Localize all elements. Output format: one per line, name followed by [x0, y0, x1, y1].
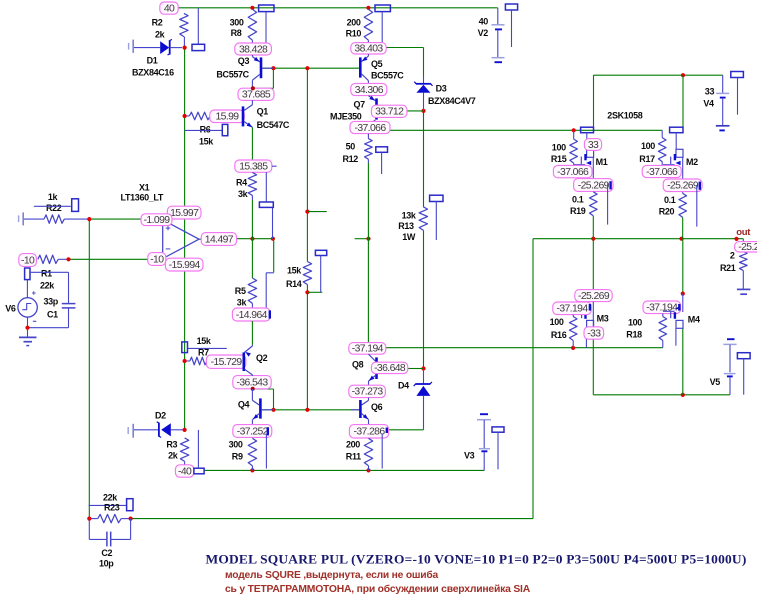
- svg-text:33.712: 33.712: [375, 107, 404, 118]
- svg-text:40: 40: [479, 17, 489, 27]
- bubble 33.712: [371, 105, 407, 117]
- tie jumper near V2: [505, 4, 517, 10]
- wire R4 to output node: [251, 200, 253, 239]
- tie jumper at M1: [581, 127, 594, 133]
- source V6: [18, 298, 37, 317]
- svg-text:C2: C2: [101, 548, 112, 558]
- tie jumper at R13: [430, 195, 443, 201]
- node dot base rail B: [305, 408, 309, 412]
- resistor R12: [365, 139, 373, 160]
- bubble 37.685: [238, 88, 274, 100]
- svg-text:22k: 22k: [103, 493, 118, 503]
- svg-text:-37.194: -37.194: [556, 304, 588, 315]
- diode D3 BZX84C4V7: [423, 76, 425, 84]
- tie jumper at V5: [737, 353, 750, 359]
- wire +33 drop to M2 tie: [682, 75, 684, 127]
- wire R22 to op-amp: [64, 218, 89, 220]
- wire feedback column x=89: [88, 219, 90, 518]
- svg-text:100: 100: [628, 318, 642, 328]
- node dot R23 right: [129, 517, 133, 521]
- svg-text:-25.269: -25.269: [667, 181, 699, 192]
- terminal at D2: [127, 427, 129, 434]
- svg-text:37.685: 37.685: [242, 90, 271, 101]
- tie jumper under R4: [265, 172, 267, 202]
- node dot bottom rail R9: [250, 468, 254, 472]
- svg-text:R6: R6: [200, 125, 211, 135]
- bubble -37.194 M3: [553, 302, 591, 315]
- svg-text:M3: M3: [597, 314, 609, 324]
- svg-text:Q6: Q6: [371, 402, 383, 412]
- node dot output rail R19: [591, 237, 595, 241]
- node dot +33 rail M2: [681, 73, 685, 77]
- svg-text:BC557C: BC557C: [371, 71, 404, 81]
- wire op-amp output segment: [237, 238, 273, 240]
- resistor R7: [185, 360, 190, 362]
- transistor Q8: [369, 354, 376, 361]
- svg-text:MODEL SQUARE PUL (VZERO=-10 VO: MODEL SQUARE PUL (VZERO=-10 VONE=10 P1=0…: [206, 552, 747, 567]
- wire stub right at y=211.6: [307, 211, 326, 213]
- mosfet M2 2SK1058: [675, 133, 677, 150]
- bubble 14.497: [201, 233, 236, 246]
- bubble -10 op-amp: [148, 253, 166, 266]
- battery V2 40V: [492, 24, 505, 26]
- node dot D4 top (-36.648): [421, 366, 425, 370]
- svg-text:1k: 1k: [48, 192, 59, 202]
- svg-text:100: 100: [550, 317, 564, 327]
- node dot bottom rail R11: [366, 468, 370, 472]
- svg-text:V6: V6: [5, 304, 16, 314]
- svg-text:R2: R2: [152, 18, 163, 28]
- svg-text:40: 40: [164, 3, 175, 14]
- bubble -36.648: [371, 362, 407, 373]
- bubble 15.385: [235, 160, 272, 172]
- svg-text:-10: -10: [21, 255, 35, 266]
- bubble -15.994: [165, 258, 203, 271]
- svg-text:10p: 10p: [99, 559, 114, 569]
- tie jumper at V3: [492, 427, 504, 432]
- node dot V5 rail M4: [681, 393, 685, 397]
- tie jumper at R7: [182, 342, 188, 353]
- node dot output rail out: [734, 237, 738, 241]
- svg-text:-40: -40: [178, 466, 192, 477]
- op-amp X1 LT1360_LT: [163, 220, 199, 259]
- svg-text:-25.269: -25.269: [578, 180, 610, 191]
- terminal at D1: [128, 43, 130, 50]
- svg-text:Q4: Q4: [238, 400, 250, 410]
- svg-text:-37.194: -37.194: [646, 303, 678, 314]
- bubble -33: [584, 327, 604, 339]
- wire D3/R13/D4 column: [386, 47, 424, 49]
- svg-text:-36.648: -36.648: [374, 363, 406, 374]
- wire R23 label line: [89, 504, 127, 506]
- battery V5: [727, 338, 735, 340]
- wire +33 drop to M1: [593, 75, 595, 127]
- bubble -37.194 Q8: [349, 343, 386, 355]
- svg-text:out: out: [736, 227, 751, 238]
- wire R12 to -37.194: [367, 163, 369, 343]
- node dot R6: [183, 114, 187, 118]
- svg-text:сь у ТЕТРАГРАММОТОНА, при обс: сь у ТЕТРАГРАММОТОНА, при обсуждении све…: [225, 583, 530, 595]
- svg-text:R16: R16: [551, 330, 567, 340]
- wire Q2 emitter to base rail: [253, 388, 274, 390]
- svg-text:-10: -10: [150, 254, 164, 265]
- bubble 15.997: [167, 206, 201, 219]
- svg-text:D4: D4: [398, 380, 409, 390]
- node dot output rail R20: [679, 237, 683, 241]
- wire tie to V6: [26, 280, 28, 298]
- resistor R20: [679, 193, 687, 217]
- resistor R15: [573, 130, 575, 139]
- wire D4 bottom link: [386, 429, 424, 431]
- bubble -37.066 M2: [642, 165, 681, 177]
- wire 33.712 bubble link: [407, 110, 424, 112]
- node dot M4 drain: [681, 292, 685, 296]
- ground at V6: [27, 328, 29, 337]
- svg-text:R1: R1: [41, 269, 52, 279]
- svg-text:100: 100: [552, 143, 566, 153]
- svg-text:14.497: 14.497: [205, 234, 234, 245]
- resistor R18: [662, 314, 664, 317]
- resistor R19: [590, 192, 598, 216]
- bubble -14.964: [232, 308, 270, 321]
- wire R7 label line: [188, 347, 227, 349]
- svg-text:BC547C: BC547C: [257, 120, 290, 130]
- svg-text:1W: 1W: [402, 232, 416, 242]
- svg-text:R23: R23: [104, 502, 120, 512]
- resistor R5: [251, 239, 253, 278]
- resistor R2: [180, 13, 188, 36]
- svg-text:33: 33: [705, 87, 715, 97]
- svg-text:D1: D1: [147, 56, 158, 66]
- svg-text:Q5: Q5: [371, 59, 383, 69]
- bubble -25.269 M1: [574, 179, 613, 192]
- transistor Q7 MJE350: [369, 96, 376, 101]
- svg-text:100: 100: [641, 141, 655, 151]
- wire feedback riser x=533: [532, 239, 534, 519]
- mosfet M4 2SK1058: [676, 320, 683, 328]
- svg-text:15.997: 15.997: [170, 208, 199, 219]
- svg-text:V2: V2: [478, 28, 489, 38]
- wire M2 source dangle: [696, 185, 698, 227]
- svg-text:V3: V3: [464, 451, 475, 461]
- wire Q3 base-collector loop: [272, 68, 274, 88]
- node dot top rail R10: [366, 6, 370, 10]
- svg-text:R11: R11: [346, 452, 361, 462]
- wire M4 drain/source column: [682, 239, 684, 294]
- bubble -25.269 M2: [663, 179, 702, 192]
- diode D4: [423, 369, 425, 385]
- svg-text:50: 50: [346, 142, 356, 152]
- svg-text:-15.729: -15.729: [211, 357, 243, 368]
- wire V5 rail y=394.8: [593, 394, 730, 396]
- svg-text:-37.066: -37.066: [646, 167, 678, 178]
- bubble 34.306: [351, 83, 387, 95]
- node dot op-amp out A: [250, 237, 254, 241]
- wire V6 bottom: [27, 317, 29, 328]
- tie jumper at R8: [259, 5, 274, 12]
- diode D1 BZX84C16: [134, 47, 160, 49]
- svg-text:-37.252: -37.252: [237, 426, 269, 437]
- svg-text:33p: 33p: [44, 297, 59, 307]
- svg-text:R22: R22: [46, 203, 62, 213]
- svg-text:15k: 15k: [199, 137, 214, 147]
- tie jumper at R14: [315, 250, 326, 255]
- bubble 15.99: [210, 110, 244, 123]
- resistor R13 1W: [419, 207, 427, 230]
- resistor R21: [742, 239, 744, 252]
- svg-text:Q3: Q3: [238, 56, 250, 66]
- bubble -15.729: [206, 355, 245, 368]
- svg-text:C1: C1: [47, 310, 58, 320]
- resistor R4: [248, 173, 256, 196]
- resistor R16: [572, 315, 574, 317]
- tie jumper at R10: [375, 5, 390, 12]
- resistor R22: [44, 215, 64, 223]
- svg-text:34.306: 34.306: [355, 85, 384, 96]
- wire R1 output: [58, 258, 68, 260]
- node dot x=307 lower stub: [305, 290, 309, 294]
- svg-text:2k: 2k: [168, 451, 179, 461]
- svg-text:-25.2: -25.2: [738, 242, 757, 253]
- svg-text:V4: V4: [703, 99, 714, 109]
- tie jumper at R22 label: [72, 199, 79, 212]
- svg-text:-37.273: -37.273: [352, 387, 384, 398]
- svg-text:R18: R18: [626, 330, 642, 340]
- resistor R8: [248, 9, 256, 40]
- tie jumper at R2: [197, 8, 199, 45]
- mosfet M3 2SK1058: [587, 320, 594, 328]
- svg-text:38.428: 38.428: [239, 44, 268, 55]
- node dot R7: [183, 359, 187, 363]
- svg-text:-14.964: -14.964: [236, 310, 268, 321]
- svg-text:R19: R19: [570, 206, 586, 216]
- wire +33 rail: [594, 74, 723, 76]
- node dot R1 out: [66, 257, 70, 261]
- bubble -1.099: [141, 214, 172, 226]
- tie jumper at R12: [376, 147, 388, 153]
- tie stalk at R9: [265, 434, 267, 469]
- transistor Q3 BC557C: [251, 55, 253, 57]
- svg-text:38.403: 38.403: [354, 44, 383, 55]
- node dot op-amp out B: [271, 237, 275, 241]
- svg-text:2k: 2k: [155, 30, 166, 40]
- node dot R16 bottom: [571, 346, 575, 350]
- capacitor C2: [88, 519, 90, 540]
- svg-text:R17: R17: [639, 154, 655, 164]
- svg-text:2: 2: [730, 251, 735, 261]
- transistor Q5 BC557C: [367, 54, 369, 56]
- wire V2 drop: [496, 7, 497, 9]
- svg-text:-25.269: -25.269: [578, 291, 610, 302]
- svg-text:15.99: 15.99: [215, 112, 239, 123]
- node dot V6 ground: [25, 326, 29, 330]
- wire -37.066 gate rail: [390, 129, 662, 131]
- bubble -25.269 M3: [575, 290, 612, 302]
- battery V4 33V: [722, 75, 724, 93]
- svg-text:200: 200: [346, 440, 360, 450]
- wire Q3-Q5 base link: [262, 67, 359, 69]
- svg-text:Q8: Q8: [352, 360, 364, 370]
- svg-text:-37.066: -37.066: [557, 167, 589, 178]
- svg-text:300: 300: [230, 18, 244, 28]
- svg-text:-15.994: -15.994: [169, 260, 201, 271]
- bubble 40: [160, 2, 178, 14]
- diode D2: [134, 429, 159, 431]
- bubble -25.2 (clipped): [735, 242, 757, 252]
- bubble -36.543: [233, 376, 271, 389]
- wire R6 label line: [185, 129, 223, 131]
- svg-text:X1: X1: [139, 182, 150, 192]
- node dot base link A: [271, 66, 275, 70]
- wire -14.964 to Q2: [251, 321, 253, 345]
- wire M4 drain blue segment: [682, 294, 684, 312]
- svg-text:-37.066: -37.066: [354, 123, 386, 134]
- svg-text:R13: R13: [398, 221, 414, 231]
- svg-text:Q1: Q1: [257, 107, 269, 117]
- tie jumper at V4: [731, 72, 744, 78]
- node dot x=368 column at y=238.7: [366, 237, 370, 241]
- resistor R6: [185, 115, 190, 117]
- svg-text:R5: R5: [235, 286, 246, 296]
- resistor R3: [180, 438, 188, 462]
- svg-text:R20: R20: [659, 207, 675, 217]
- wire R22 label line: [34, 205, 71, 207]
- svg-text:M2: M2: [686, 157, 698, 167]
- svg-text:0.1: 0.1: [572, 195, 584, 205]
- node dot R15 top: [572, 128, 576, 132]
- wire M1 source dangle: [607, 183, 609, 224]
- node dot base rail A: [271, 408, 275, 412]
- transistor Q6: [351, 409, 359, 411]
- node dot top rail R8: [250, 6, 254, 10]
- battery V3: [480, 413, 488, 415]
- node dot D1/R2: [183, 46, 187, 50]
- resistor R14: [303, 262, 311, 285]
- bubble -40: [175, 465, 193, 477]
- bubble -37.066 M1: [553, 165, 592, 177]
- bubble 38.403: [351, 43, 386, 54]
- svg-text:-33: -33: [587, 328, 601, 339]
- svg-text:15.385: 15.385: [239, 161, 268, 172]
- bubble -37.194 M4: [643, 301, 681, 314]
- svg-text:300: 300: [229, 440, 243, 450]
- node dot Q3 collector (dark): [251, 86, 255, 90]
- svg-text:M1: M1: [596, 157, 608, 167]
- svg-text:-37.194: -37.194: [352, 344, 384, 355]
- wire -33 to rail: [585, 339, 587, 348]
- transistor Q4: [251, 389, 253, 400]
- svg-text:модель SQURE ,выдернута, если: модель SQURE ,выдернута, если не ошиба: [225, 569, 439, 581]
- transistor Q1 BC547C: [251, 100, 253, 105]
- node dot D2: [183, 428, 187, 432]
- tie jumper at M2: [670, 127, 683, 133]
- tie jumper at R23: [127, 499, 133, 511]
- wire -37.194 gate rail: [386, 347, 663, 349]
- svg-text:R4: R4: [236, 178, 247, 188]
- svg-text:R21: R21: [720, 263, 736, 273]
- svg-text:R12: R12: [343, 154, 359, 164]
- wire column x=307 (to R14 and Q4/Q6 base rail): [306, 68, 308, 261]
- svg-text:BC557C: BC557C: [216, 70, 249, 80]
- svg-text:2SK1058: 2SK1058: [607, 111, 642, 121]
- svg-text:-37.286: -37.286: [353, 427, 385, 438]
- bubble -37.286: [349, 425, 388, 438]
- bubble 38.428: [235, 43, 272, 55]
- svg-text:MJE350: MJE350: [330, 112, 362, 122]
- node dot base link B: [305, 66, 309, 70]
- wire R1 label line to C1: [30, 271, 69, 273]
- svg-text:13k: 13k: [402, 211, 417, 221]
- wire stub left of x=368 column: [355, 238, 369, 240]
- resistor R11: [364, 438, 372, 466]
- transistor Q2: [245, 346, 253, 352]
- bubble -37.252: [233, 425, 272, 438]
- svg-text:D3: D3: [436, 84, 447, 94]
- svg-text:200: 200: [347, 18, 361, 28]
- bubble -10 at R1: [19, 254, 37, 267]
- svg-text:V5: V5: [710, 377, 721, 387]
- wire left column x=184.6 (D1 to D2): [184, 48, 186, 430]
- resistor R9: [248, 438, 256, 466]
- wire op-amp output: [199, 238, 201, 240]
- svg-text:Q2: Q2: [256, 353, 268, 363]
- svg-text:R8: R8: [231, 28, 242, 38]
- resistor R23: [98, 514, 121, 522]
- mosfet M1 2SK1058: [586, 133, 588, 150]
- capacitor C1: [68, 272, 70, 303]
- svg-text:BZX84C16: BZX84C16: [132, 68, 174, 78]
- wire drop from 14.497 node: [273, 239, 275, 273]
- svg-text:R10: R10: [346, 29, 362, 39]
- svg-text:3k: 3k: [238, 189, 249, 199]
- terminal input R22: [18, 215, 20, 222]
- svg-text:3k: 3k: [237, 297, 248, 307]
- node dot D3 anode (33.712): [421, 109, 425, 113]
- tie jumper at -40: [194, 468, 204, 474]
- bubble 33: [584, 139, 601, 151]
- svg-text:LT1360_LT: LT1360_LT: [121, 192, 164, 202]
- svg-text:R3: R3: [166, 440, 177, 450]
- svg-text:R9: R9: [232, 452, 243, 462]
- svg-text:R15: R15: [551, 154, 567, 164]
- resistor R17: [661, 130, 663, 137]
- ground at R21: [737, 288, 751, 290]
- svg-text:22k: 22k: [40, 281, 55, 291]
- wire stub right at y=292.3: [307, 291, 322, 293]
- tie stalk at R11: [381, 434, 383, 469]
- svg-text:33: 33: [588, 140, 599, 151]
- wire M3 source column: [592, 328, 594, 395]
- svg-text:R14: R14: [286, 279, 302, 289]
- node dot x=307 upper stub: [305, 210, 309, 214]
- wire M3 drain column: [592, 239, 594, 290]
- resistor R1: [38, 255, 58, 263]
- tie jumper at R6: [222, 124, 228, 135]
- tie jumper at R1: [25, 268, 30, 280]
- wire Q4/Q6 base rail: [262, 409, 360, 411]
- wire feedback bottom y=518.6: [131, 518, 533, 520]
- wire R22 left lead: [24, 218, 44, 220]
- wire output rail y=238.7: [533, 238, 743, 240]
- svg-text:Q7: Q7: [354, 100, 366, 110]
- svg-text:15k: 15k: [197, 336, 212, 346]
- svg-text:-1.099: -1.099: [144, 215, 171, 226]
- bubble -37.273: [349, 385, 386, 397]
- wire bottom -40 rail: [204, 469, 484, 471]
- node dot R23 left: [87, 517, 91, 521]
- svg-text:0.1: 0.1: [664, 195, 676, 205]
- wire -36.648 bubble link: [408, 368, 424, 370]
